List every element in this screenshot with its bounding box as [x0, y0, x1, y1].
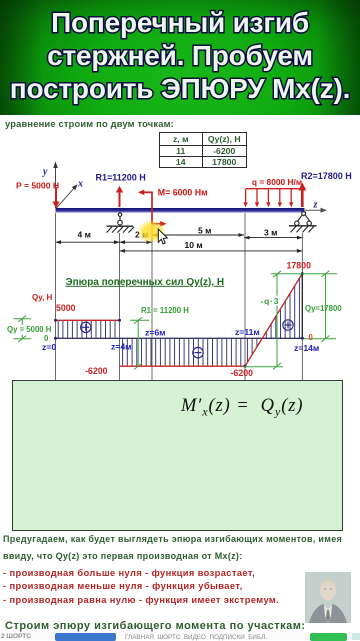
- svg-text:z=0: z=0: [42, 342, 56, 352]
- green gradient title banner: [0, 0, 360, 115]
- dimension 2m line: [120, 240, 153, 244]
- svg-text:x: x: [77, 179, 83, 190]
- red rule line 2: [3, 581, 243, 591]
- moment M bent arrow: [138, 190, 167, 227]
- bottom green heading: [5, 620, 306, 632]
- svg-text:10 м: 10 м: [185, 240, 203, 250]
- svg-text:R1 = 11200 Н: R1 = 11200 Н: [141, 306, 189, 315]
- Qy minus region hatch (4..11m): [123, 339, 241, 366]
- green dim R1: [130, 317, 149, 369]
- circled plus sign 2: [283, 320, 293, 330]
- svg-text:Qy, Н: Qy, Н: [32, 293, 53, 302]
- caption: equation built by two points: [5, 119, 174, 129]
- svg-text:0: 0: [309, 333, 314, 342]
- svg-text:4 м: 4 м: [78, 229, 91, 239]
- green dim -q*3: [244, 271, 283, 370]
- bottom green paragraph line 1: [3, 534, 342, 544]
- green dim Qy=5000 left: [14, 316, 32, 343]
- dimension 10m line: [120, 249, 303, 253]
- banner outlined title text: [0, 0, 360, 115]
- table of Qy values: [159, 132, 247, 168]
- Qy right edge at z=14: [301, 274, 303, 339]
- svg-text:Qy=17800: Qy=17800: [305, 304, 342, 313]
- mint formula box: [12, 380, 343, 531]
- formula Mx'(z)=Qy(z): [181, 396, 303, 420]
- svg-text:z=14м: z=14м: [294, 343, 319, 353]
- Qy plus region hatch (0..4m): [58, 321, 115, 338]
- svg-text:R1=11200 Н: R1=11200 Н: [96, 173, 146, 183]
- Qy plus region top edge 5000: [56, 319, 120, 321]
- construction line z=14: [301, 233, 303, 381]
- bottom browser bar: [0, 632, 360, 640]
- svg-text:М= 6000 Нм: М= 6000 Нм: [158, 188, 208, 198]
- reaction R1 arrow: [116, 186, 123, 207]
- z axis: [305, 208, 327, 213]
- bottom green paragraph line 2: [3, 551, 243, 561]
- circled minus sign: [193, 347, 203, 357]
- svg-text:z: z: [313, 200, 318, 211]
- Qy minus region bottom edge -6200: [120, 365, 246, 367]
- red rule line 3: [3, 595, 279, 605]
- svg-text:q = 8000 Н/м: q = 8000 Н/м: [252, 177, 302, 187]
- Qy zero axis: [56, 337, 305, 339]
- svg-text:5 м: 5 м: [198, 225, 211, 235]
- svg-text:P = 5000 Н: P = 5000 Н: [16, 180, 59, 190]
- Qy slope line: [245, 274, 302, 367]
- dimension 3m line: [244, 236, 302, 240]
- svg-text:3 м: 3 м: [264, 228, 277, 238]
- svg-text:Эпюра поперечных сил Qy(z), Н: Эпюра поперечных сил Qy(z), Н: [66, 277, 225, 288]
- construction line z=0: [55, 213, 57, 381]
- dimension 4m line: [56, 240, 120, 244]
- node dots: [54, 272, 304, 368]
- svg-text:-q·3: -q·3: [261, 296, 280, 306]
- x axis: [56, 184, 78, 208]
- svg-text:-6200: -6200: [85, 366, 108, 376]
- Qy sloped region hatch (11..14m): [247, 278, 299, 363]
- reaction R2 arrow: [298, 183, 306, 208]
- green dim Qy=17800: [271, 271, 337, 342]
- construction line z=11: [244, 213, 246, 381]
- distributed load q arrows: [243, 189, 303, 208]
- force P arrow: [52, 187, 59, 208]
- svg-text:z=6м: z=6м: [145, 328, 165, 338]
- svg-text:R2=17800 Н: R2=17800 Н: [301, 171, 352, 181]
- support A (pin on rollers, left): [107, 213, 135, 233]
- support B (triangle on rollers, right): [289, 211, 317, 232]
- svg-text:17800: 17800: [287, 260, 312, 270]
- svg-text:z=11м: z=11м: [235, 327, 260, 337]
- construction line z=4: [119, 233, 121, 381]
- red rule line 1: [3, 568, 255, 578]
- svg-text:-6200: -6200: [231, 368, 254, 378]
- lecturer photo: [305, 572, 351, 623]
- y axis: [53, 162, 58, 209]
- mouse pointer: [158, 229, 167, 244]
- circled plus sign 1: [81, 322, 91, 332]
- construction line z=6: [151, 213, 153, 381]
- svg-text:Qy = 5000 Н: Qy = 5000 Н: [7, 325, 52, 334]
- dimension 5m line: [152, 233, 244, 237]
- svg-text:y: y: [42, 167, 48, 178]
- svg-text:5000: 5000: [56, 303, 76, 313]
- svg-text:z=4м: z=4м: [111, 342, 131, 352]
